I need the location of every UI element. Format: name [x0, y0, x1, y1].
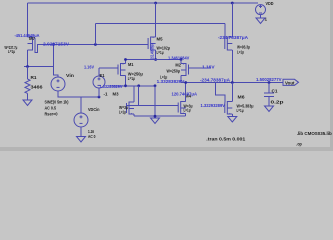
- junction M2/M4 drain: [184, 81, 187, 84]
- wire M6 drain: [231, 83, 233, 102]
- label M1: [128, 62, 134, 67]
- annotation -251.49936uA vertical: [150, 43, 155, 60]
- svg-text:-234.78387μA: -234.78387μA: [200, 78, 230, 83]
- wire M2 source up: [180, 60, 182, 64]
- label W=250u M2: [167, 69, 181, 74]
- value SINE line2: [45, 105, 57, 110]
- annotation 1.50028277V: [256, 77, 282, 82]
- svg-text:120.74697μA: 120.74697μA: [172, 91, 197, 96]
- wire output rail: [181, 82, 283, 84]
- wire M2 gate stub: [189, 67, 212, 69]
- svg-text:VDD: VDD: [266, 1, 274, 6]
- label Vout: [285, 80, 295, 85]
- wire gnd stem: [154, 86, 156, 118]
- annotation 1.33283829V second: [157, 79, 185, 84]
- wire VDD top rail: [28, 2, 259, 4]
- svg-text:0.2p: 0.2p: [271, 100, 285, 105]
- svg-text:Vout: Vout: [285, 80, 295, 85]
- transistor M8: [225, 37, 233, 51]
- junction output at M8: [231, 81, 234, 84]
- ground mirror: [151, 118, 160, 124]
- annotation 1.33283829V: [100, 84, 123, 89]
- transistor M2: [181, 63, 189, 76]
- svg-text:W=93.3μ: W=93.3μ: [237, 45, 250, 50]
- resistor R1: [25, 79, 30, 93]
- svg-text:3466: 3466: [31, 85, 44, 90]
- wire R1 bottom: [27, 93, 29, 100]
- annotation -451.44949uA: [15, 33, 40, 38]
- wire M4 source: [185, 114, 187, 117]
- svg-text:-234.78387μA: -234.78387μA: [218, 35, 248, 40]
- ground VDCin: [77, 137, 86, 143]
- svg-text:-451.44949μA: -451.44949μA: [15, 33, 40, 38]
- junction bias tap: [52, 43, 55, 46]
- window edge right: [330, 0, 333, 151]
- voltage source VDCin: [74, 113, 88, 127]
- svg-text:L=1μ: L=1μ: [237, 49, 244, 54]
- svg-text:W=102μ: W=102μ: [157, 45, 171, 50]
- wire M6 gate path: [215, 83, 224, 103]
- annotation 1.16V right: [202, 64, 215, 69]
- wire VDCin drop: [80, 97, 82, 113]
- svg-text:.tran 0.5m 0.001: .tran 0.5m 0.001: [206, 137, 246, 142]
- svg-text:L=1μ: L=1μ: [157, 50, 164, 55]
- label L=1u M3: [119, 109, 126, 114]
- label M7: [29, 36, 36, 41]
- value 0.2p: [271, 100, 285, 105]
- label W=93.3u: [237, 45, 250, 50]
- wire M3 source: [133, 114, 135, 116]
- wire Vin bottom to VCM: [58, 91, 99, 97]
- junction M1 drain: [124, 84, 127, 87]
- value SINE line1: [45, 99, 69, 104]
- label L=1u M5: [157, 50, 164, 55]
- svg-text:L=1μ: L=1μ: [119, 109, 126, 114]
- label VDCin: [88, 107, 100, 112]
- wire bias rail up: [94, 24, 96, 45]
- annotation 120.74697uA: [172, 91, 197, 96]
- svg-text:VDCin: VDCin: [88, 107, 100, 112]
- directive .lib: [297, 131, 332, 136]
- annotation -234.78387uA top: [218, 35, 248, 40]
- wire tail rail: [126, 59, 182, 61]
- ground M6: [228, 117, 237, 123]
- svg-text:L=1μ: L=1μ: [128, 76, 135, 81]
- wire gate distribution rail: [95, 23, 224, 25]
- junction mirror jumper: [137, 84, 140, 87]
- value AC 0: [88, 134, 96, 139]
- label M4: [185, 93, 192, 98]
- value SINE line3: [45, 111, 59, 116]
- wire mirror gate rail: [127, 104, 179, 106]
- wire M7 gate rail: [37, 44, 148, 46]
- svg-text:2.0297153V: 2.0297153V: [43, 42, 69, 47]
- wire M7 gate hook: [35, 45, 38, 53]
- label W=102u: [157, 45, 171, 50]
- label R1: [31, 75, 38, 80]
- capacitor C1: [264, 83, 274, 107]
- svg-text:M6: M6: [238, 94, 246, 99]
- annotation 1.3461984V: [168, 56, 189, 61]
- ground C1: [265, 106, 274, 112]
- svg-text:1.50028277V: 1.50028277V: [256, 77, 282, 82]
- svg-text:L=1μ: L=1μ: [8, 49, 15, 54]
- svg-text:1.3461984V: 1.3461984V: [168, 56, 189, 61]
- value 3.3: [265, 16, 268, 21]
- dependent source E1: [93, 76, 105, 88]
- label W=5.383u: [237, 103, 254, 108]
- svg-text:-251.49936μA: -251.49936μA: [150, 43, 155, 60]
- value 1.16: [88, 129, 94, 134]
- wire M8 gate drop: [224, 24, 226, 39]
- wire E1 bottom: [98, 88, 100, 97]
- wire M6 source: [231, 114, 233, 117]
- svg-text:1.16V: 1.16V: [84, 65, 94, 70]
- wire VDCin bottom: [80, 127, 82, 137]
- wire VDD bottom: [260, 15, 262, 18]
- wire M7 drain down: [27, 50, 29, 67]
- label L=1u M8: [237, 49, 244, 54]
- svg-text:W=250μ: W=250μ: [167, 69, 181, 74]
- svg-text:SINE(0 5m 1k): SINE(0 5m 1k): [45, 99, 69, 104]
- wire M8 drain: [231, 50, 233, 82]
- svg-text:Rser=0: Rser=0: [45, 111, 59, 116]
- wire bias rail left: [24, 66, 54, 68]
- transistor M6: [225, 102, 233, 115]
- label M3: [113, 92, 120, 97]
- ground R1: [23, 100, 32, 106]
- svg-text:E1: E1: [100, 73, 106, 78]
- wire M8 source: [231, 3, 233, 37]
- svg-text:W=5.383μ: W=5.383μ: [237, 103, 254, 108]
- annotation 1.16V left: [84, 65, 94, 70]
- junction gnd stem top: [154, 84, 157, 87]
- transistor M3: [127, 102, 135, 115]
- wire R1 top: [27, 67, 29, 80]
- directive .tran: [206, 137, 246, 142]
- svg-text:C1: C1: [272, 89, 279, 94]
- wire M7 source: [27, 3, 29, 37]
- wire bias down to Vin plus: [54, 45, 59, 78]
- svg-text:AC 0: AC 0: [88, 134, 96, 139]
- directive .op: [296, 141, 302, 146]
- svg-text:.lib CMOS035.lib: .lib CMOS035.lib: [297, 131, 332, 136]
- label L=1u M1: [128, 76, 135, 81]
- svg-text:M3: M3: [113, 92, 120, 97]
- svg-text:1.32293289V: 1.32293289V: [201, 103, 226, 108]
- voltage source Vin: [51, 77, 65, 91]
- label W=3u M3: [119, 105, 128, 110]
- label L=1u M7: [8, 49, 15, 54]
- transistor M1: [118, 63, 126, 76]
- wire M3 drain up: [133, 86, 135, 102]
- wire M5 source: [155, 3, 157, 37]
- junction top rail at M5: [154, 2, 157, 5]
- label W=3u M4: [184, 104, 193, 109]
- svg-text:M5: M5: [157, 37, 164, 42]
- ground VDD: [256, 18, 265, 24]
- voltage source VDD: [256, 5, 266, 15]
- wire M1 drain down: [125, 76, 127, 86]
- svg-text:L=1μ: L=1μ: [237, 108, 244, 113]
- svg-text:L=1μ: L=1μ: [184, 108, 191, 113]
- label W=250u M1: [128, 72, 143, 77]
- svg-text:AC 0.5: AC 0.5: [45, 105, 57, 110]
- wire mirror diode jumper: [138, 86, 140, 106]
- svg-text:-1: -1: [104, 91, 109, 96]
- junction C1 tap: [268, 81, 271, 84]
- label W=237.7u: [5, 45, 18, 50]
- label L=1u M2: [160, 75, 168, 80]
- junction M7 drain / R1: [26, 65, 29, 68]
- wire M1 gate path: [99, 67, 118, 69]
- svg-text:Vin: Vin: [66, 73, 75, 78]
- label E1: [100, 73, 106, 78]
- junction M1 source: [124, 58, 127, 61]
- transistor M4: [178, 102, 186, 115]
- value -1: [104, 91, 109, 96]
- wire M2 drain down: [180, 76, 182, 83]
- wire ground rail: [134, 115, 186, 117]
- flag Vout: [283, 79, 299, 85]
- label M5: [157, 37, 164, 42]
- junction bias gate rail: [94, 43, 97, 46]
- junction top rail at M8: [231, 2, 234, 5]
- window edge bottom: [0, 147, 333, 151]
- svg-text:1.33283829V: 1.33283829V: [100, 84, 123, 89]
- wire first-stage rail: [110, 85, 155, 87]
- annotation 2.0297153V: [43, 42, 69, 47]
- wire M5 drain: [155, 50, 157, 60]
- wire M1 source up: [125, 60, 127, 64]
- wire E1 top: [98, 68, 100, 76]
- junction tail node: [154, 58, 157, 61]
- label M2: [175, 62, 181, 67]
- svg-text:M2: M2: [175, 62, 181, 67]
- label L=1u M6: [237, 108, 244, 113]
- svg-text:M1: M1: [128, 62, 134, 67]
- transistor M5: [148, 37, 156, 51]
- svg-text:1.33283829V: 1.33283829V: [157, 79, 185, 84]
- svg-text:.op: .op: [296, 141, 302, 146]
- svg-text:R1: R1: [31, 75, 38, 80]
- label Vin: [66, 73, 75, 78]
- transistor M7: [28, 37, 36, 51]
- annotation -234.78387uA on rail: [200, 78, 230, 83]
- label C1: [272, 89, 279, 94]
- annotation 1.32293289V: [201, 103, 226, 108]
- label L=1u M4: [184, 108, 191, 113]
- label M6: [238, 94, 246, 99]
- wire M4 drain up: [185, 83, 187, 102]
- svg-text:1.16V: 1.16V: [202, 64, 215, 69]
- junction ground rail: [154, 115, 157, 118]
- junction E1 bottom: [98, 96, 101, 99]
- junction M2 source: [180, 58, 183, 61]
- value 3466: [31, 85, 44, 90]
- label VDD: [266, 1, 274, 6]
